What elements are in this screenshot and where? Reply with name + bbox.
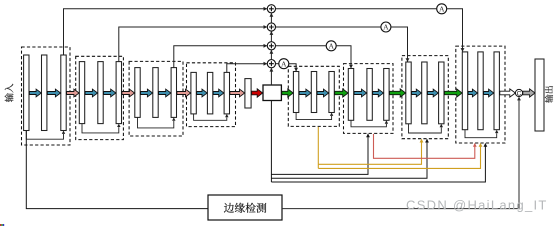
D4 dashed block box — [456, 46, 505, 143]
D4 conv layer bar 2 — [478, 52, 483, 130]
add to attention wire row D3 — [276, 26, 381, 28]
add chain wire B to +4 — [270, 68, 274, 85]
E4 conv arrow 1 — [197, 89, 208, 97]
D3 conv layer bar 2 — [422, 62, 427, 124]
D2 conv layer bar 1 — [348, 69, 353, 121]
edge detection label 边缘检测 — [224, 203, 266, 213]
attention descent wire into D3 — [391, 27, 410, 62]
final arrow (gray) — [523, 89, 535, 97]
D2 residual wire — [351, 120, 388, 127]
downsample arrow P4 — [230, 89, 245, 97]
svg-text:CSDN @HaiLang_IT: CSDN @HaiLang_IT — [406, 198, 548, 213]
bottleneck input arrow (red) — [252, 89, 263, 97]
E4 conv layer bar 2 — [207, 72, 212, 114]
attention node A2 — [381, 22, 391, 32]
E2 conv arrow 2 — [104, 89, 116, 97]
E1 conv layer bar 1 — [24, 55, 29, 131]
attention descent wire into D1 — [289, 64, 298, 72]
E1 conv layer bar 2 — [42, 55, 47, 131]
D1 skip wire to D3 (yellow) — [318, 139, 423, 165]
edge-detect to concat wire — [282, 97, 521, 209]
D1 conv layer bar 3 — [329, 72, 334, 113]
E2 dashed block box — [76, 56, 124, 139]
upsample arrow G2 — [335, 89, 348, 97]
add node +1 — [267, 5, 275, 13]
E2 conv arrow 1 — [85, 89, 98, 97]
D1 conv arrow 1 — [299, 89, 311, 97]
svg-text:C: C — [517, 90, 522, 97]
D1 conv layer bar 1 — [293, 72, 298, 113]
pooled feature bar S — [245, 79, 251, 108]
D3 residual wire — [409, 124, 444, 133]
E4 conv arrow 2 — [213, 89, 224, 97]
input to edge-detect wire — [26, 131, 208, 209]
D1 skip wire to D4 (yellow) — [318, 143, 482, 168]
watermark text — [406, 198, 548, 213]
E1 residual wire — [26, 131, 65, 140]
E3 conv arrow 1 — [141, 89, 153, 97]
upsample arrow G3 — [390, 89, 406, 97]
E4 residual wire — [194, 114, 229, 120]
D3 conv layer bar 3 — [439, 62, 444, 124]
D3 conv layer bar 1 — [406, 62, 411, 124]
D2 conv arrow 2 — [373, 89, 384, 97]
D3 dashed block box — [402, 56, 448, 139]
E4 conv layer bar 1 — [191, 72, 196, 114]
upsample arrow G4 — [444, 89, 462, 97]
output label 输出 — [545, 86, 553, 103]
svg-text:A: A — [439, 5, 445, 14]
D2 conv layer bar 2 — [367, 69, 372, 121]
D1 residual wire — [296, 113, 333, 120]
D4 residual wire — [465, 130, 498, 138]
add to attention wire row D4 — [276, 8, 437, 10]
E2 conv layer bar 2 — [98, 62, 103, 124]
D2 skip wire to D4 (red) — [374, 134, 477, 158]
E3 residual wire — [138, 117, 176, 128]
D4 conv layer bar 1 — [462, 52, 467, 130]
E3 conv layer bar 3 — [171, 68, 176, 118]
add node +3 — [267, 42, 275, 50]
D2 conv arrow 1 — [354, 89, 367, 97]
bottleneck skip wire to D4 (black) — [271, 143, 487, 182]
upsample arrow G1 — [282, 89, 293, 97]
add to attention wire row D2 — [276, 45, 327, 47]
D1 conv layer bar 2 — [311, 72, 316, 113]
E3 dashed block box — [129, 61, 183, 136]
downsample arrow P2 — [122, 89, 135, 97]
D4 conv arrow 2 — [484, 89, 494, 97]
D4 conv arrow 1 — [468, 89, 478, 97]
E1 conv arrow 1 — [29, 89, 41, 97]
E1 dashed block box — [22, 47, 71, 145]
output feature bar F — [535, 59, 544, 131]
bottleneck down wire — [270, 101, 272, 183]
E2 conv layer bar 1 — [79, 62, 84, 124]
downsample arrow P1 — [67, 89, 80, 97]
svg-text:A: A — [383, 23, 389, 32]
add chain wire +3 to +2 — [270, 31, 274, 42]
E3 conv arrow 2 — [159, 89, 171, 97]
E1 conv arrow 2 — [47, 89, 60, 97]
attention descent wire into D4 — [447, 9, 465, 52]
add chain wire +2 to +1 — [270, 13, 274, 23]
add to attention wire row D1 — [276, 63, 279, 65]
bottleneck box B — [263, 85, 281, 101]
attention node A4 — [279, 59, 289, 69]
attention descent wire into D2 — [336, 46, 353, 69]
D3 conv arrow 2 — [428, 89, 439, 97]
E2 residual wire — [82, 124, 121, 133]
E2 conv layer bar 3 — [116, 62, 121, 124]
E3 conv layer bar 2 — [153, 68, 158, 118]
add node +4 — [267, 60, 275, 68]
concat node C — [515, 89, 522, 97]
E1 conv layer bar 3 — [61, 55, 66, 131]
watermark corner mark — [0, 224, 4, 226]
D2 dashed block box — [344, 64, 394, 134]
svg-text:A: A — [281, 59, 287, 68]
downsample arrow P3 — [177, 89, 191, 97]
output arrow (white) — [500, 89, 516, 97]
D3 conv arrow 1 — [412, 89, 422, 97]
attention node A1 — [437, 4, 447, 14]
D1 skip drop wire (yellow) — [317, 127, 319, 168]
E4 dashed block box — [187, 63, 236, 127]
E3 conv layer bar 1 — [135, 68, 140, 118]
E4 conv layer bar 3 — [224, 72, 229, 114]
attention node A3 — [326, 41, 336, 51]
D1 dashed block box — [288, 66, 339, 126]
encoder tap wire T4 — [227, 62, 267, 73]
D1 conv arrow 2 — [317, 89, 329, 97]
edge detection box — [208, 195, 282, 220]
svg-text:A: A — [328, 42, 334, 51]
add chain wire +4 to +3 — [270, 50, 274, 60]
D4 conv layer bar 3 — [494, 52, 499, 130]
input label 输入 — [5, 84, 14, 102]
bottleneck skip wire to D2 (black) — [271, 133, 370, 174]
encoder tap wire T1 — [64, 7, 268, 55]
D2 conv layer bar 3 — [384, 69, 389, 121]
encoder tap wire T2 — [119, 25, 267, 62]
bottleneck skip wire to D3 (black) — [271, 139, 429, 179]
add node +2 — [267, 23, 275, 31]
encoder tap wire T3 — [174, 44, 267, 68]
